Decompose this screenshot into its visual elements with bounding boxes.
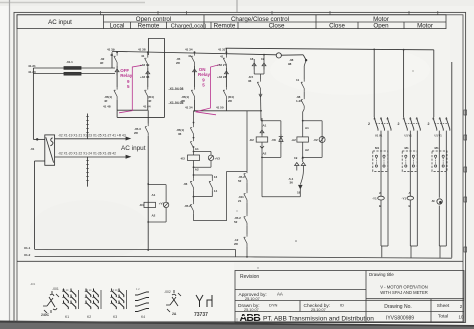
svg-text:2: 2 (398, 122, 400, 126)
svg-text:-Y1: -Y1 (372, 197, 377, 201)
svg-text:+V3: +V3 (215, 157, 221, 161)
svg-text:Revision: Revision (240, 274, 259, 280)
svg-text:Relay: Relay (198, 72, 211, 77)
svg-text:13: 13 (214, 175, 218, 179)
svg-text:13 14: 13 14 (62, 288, 69, 292)
svg-text:PT. ABB Transmission and Distr: PT. ABB Transmission and Distribution (263, 316, 374, 323)
svg-text:-01.1: -01.1 (66, 60, 73, 64)
svg-text:41: 41 (220, 55, 224, 59)
svg-text:DYN: DYN (269, 303, 278, 308)
svg-text:-06: -06 (183, 182, 188, 186)
svg-text:36: 36 (248, 79, 252, 83)
svg-text:18: 18 (250, 57, 254, 61)
svg-text:36: 36 (178, 132, 182, 136)
svg-text:41-20: 41-20 (28, 70, 36, 74)
svg-text:-001: -001 (52, 287, 59, 291)
svg-text:-401: -401 (30, 282, 36, 286)
svg-text:K2: K2 (87, 315, 91, 319)
svg-text:-X1-04.08: -X1-04.08 (169, 87, 184, 91)
svg-text:41: 41 (141, 54, 145, 58)
svg-text:14: 14 (214, 189, 218, 193)
svg-text:9F: 9F (100, 61, 104, 65)
svg-text:A2: A2 (195, 168, 199, 172)
svg-text:A2: A2 (152, 214, 156, 218)
svg-text:41-21: 41-21 (28, 64, 36, 68)
svg-text:M1: M1 (435, 146, 439, 150)
svg-text:Motor: Motor (417, 23, 433, 30)
svg-text:+42 27: +42 27 (217, 63, 227, 67)
svg-text:-002: -002 (164, 290, 171, 294)
svg-text:-V8: -V8 (271, 138, 276, 142)
svg-text:-Y1: -Y1 (402, 197, 407, 201)
svg-text:-01: -01 (30, 147, 35, 151)
svg-text:A1: A1 (152, 193, 156, 197)
svg-text:36: 36 (290, 181, 294, 185)
svg-text:19: 19 (261, 57, 265, 61)
svg-text:13 14: 13 14 (85, 288, 92, 292)
svg-text:AC input: AC input (48, 19, 72, 26)
svg-text:19: 19 (294, 156, 298, 160)
svg-text:Close: Close (329, 23, 345, 30)
svg-text:M1: M1 (405, 146, 409, 150)
svg-text:M1: M1 (375, 146, 379, 150)
svg-text:ID: ID (340, 303, 344, 308)
svg-text:A2: A2 (263, 152, 267, 156)
svg-text:WITH SPAJ AND METER: WITH SPAJ AND METER (380, 290, 428, 295)
svg-text:25.10.07: 25.10.07 (245, 297, 260, 301)
svg-text:Sheet: Sheet (437, 303, 450, 309)
svg-text:-A2: -A2 (291, 138, 296, 142)
svg-text:Relay: Relay (120, 73, 133, 78)
svg-text:Charge(Local): Charge(Local) (171, 24, 207, 30)
svg-text:2: 2 (368, 122, 370, 126)
svg-text:240C: 240C (41, 313, 50, 317)
svg-text:+43 28: +43 28 (217, 75, 227, 79)
svg-text:V - MOTOR OPERATION: V - MOTOR OPERATION (380, 285, 428, 290)
svg-text:K1: K1 (65, 315, 69, 319)
svg-text:11: 11 (296, 78, 300, 82)
svg-text:13 14: 13 14 (111, 288, 118, 292)
svg-text:21: 21 (238, 199, 242, 203)
svg-text:1 2: 1 2 (136, 287, 140, 291)
svg-text:41 34: 41 34 (185, 48, 193, 52)
svg-text:4F: 4F (148, 99, 152, 103)
svg-text:18: 18 (297, 191, 301, 195)
svg-text:+43 39: +43 39 (140, 63, 150, 67)
svg-text:A1: A1 (305, 126, 309, 130)
svg-text:Remote: Remote (214, 23, 236, 30)
svg-text:-M: -M (431, 199, 435, 203)
svg-text:K4: K4 (141, 315, 145, 319)
svg-text:AC input: AC input (121, 145, 146, 152)
svg-text:Local: Local (110, 23, 125, 30)
svg-text:41: 41 (110, 53, 114, 57)
svg-text:2: 2 (428, 122, 430, 126)
svg-text:41 32: 41 32 (218, 48, 226, 52)
svg-text:A2: A2 (305, 148, 309, 152)
svg-text:AA: AA (277, 292, 283, 297)
svg-text:K3: K3 (113, 315, 117, 319)
svg-text:52: 52 (234, 220, 238, 224)
svg-text:U1 V1: U1 V1 (375, 134, 383, 138)
svg-text:10: 10 (459, 315, 464, 320)
svg-text:Total: Total (438, 314, 448, 320)
svg-text:41: 41 (188, 54, 192, 58)
svg-text:Drawing No.: Drawing No. (384, 304, 412, 310)
svg-text:Close: Close (269, 23, 285, 30)
svg-text:41 50: 41 50 (216, 106, 224, 110)
svg-text:-X1-04.08: -X1-04.08 (169, 101, 184, 105)
svg-text:A1: A1 (263, 124, 267, 128)
svg-text:X1-1: X1-1 (24, 246, 31, 250)
svg-text:U1 V1: U1 V1 (405, 134, 413, 138)
svg-text:-K2: -K2 (249, 138, 254, 142)
svg-text:Open: Open (373, 23, 389, 30)
svg-text:52: 52 (238, 179, 242, 183)
svg-text:25.10.07: 25.10.07 (311, 308, 326, 312)
svg-text:ABB: ABB (240, 312, 262, 324)
svg-text:2A: 2A (172, 312, 177, 316)
svg-text:+V1: +V1 (159, 202, 165, 206)
svg-text:4F: 4F (104, 99, 108, 103)
svg-text:Drawing title: Drawing title (369, 272, 394, 277)
svg-text:73737: 73737 (194, 312, 208, 318)
svg-text:1-20: 1-20 (296, 99, 302, 103)
svg-text:+43 38: +43 38 (140, 75, 150, 79)
svg-text:41 39: 41 39 (107, 48, 115, 52)
svg-text:-K1: -K1 (139, 203, 144, 207)
svg-text:-02 X1-20 X1-22 X1-24 X1-2: -02 X1-20 X1-22 X1-24 X1-26 X1-28 42 (58, 152, 116, 156)
svg-text:A1: A1 (195, 147, 199, 151)
svg-text:-V2: -V2 (313, 138, 318, 142)
svg-text:U1 V1: U1 V1 (435, 134, 443, 138)
svg-text:41 38: 41 38 (138, 48, 146, 52)
svg-text:41 48: 41 48 (103, 105, 111, 109)
svg-text:98: 98 (288, 62, 292, 66)
svg-text:X1-2: X1-2 (24, 253, 31, 257)
svg-text:Remote: Remote (138, 23, 160, 30)
svg-text:IYVS800989: IYVS800989 (386, 316, 414, 322)
svg-text:-02 X1-19 X1-21 X1-23 X1-2: -02 X1-19 X1-21 X1-23 X1-25 X1-27 41 +R … (58, 134, 126, 138)
svg-text:-K3: -K3 (180, 157, 185, 161)
svg-text:41 44: 41 44 (143, 105, 151, 109)
svg-text:-05.2: -05.2 (184, 204, 191, 208)
svg-text:41 34: 41 34 (185, 106, 193, 110)
